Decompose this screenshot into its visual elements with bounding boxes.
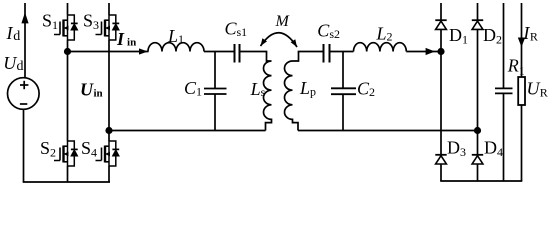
svg-text:D2: D2 — [483, 25, 502, 47]
svg-text:D1: D1 — [449, 25, 468, 47]
svg-text:C2: C2 — [357, 78, 375, 99]
svg-text:Cs1: Cs1 — [225, 19, 248, 40]
svg-text:Id: Id — [6, 23, 21, 44]
svg-text:S1: S1 — [42, 11, 58, 33]
svg-text:IR: IR — [522, 23, 538, 44]
svg-text:S2: S2 — [40, 138, 56, 160]
svg-text:Lp: Lp — [299, 78, 316, 99]
svg-text:C1: C1 — [184, 78, 202, 99]
svg-text:S4: S4 — [81, 138, 97, 160]
svg-text:D3: D3 — [447, 138, 466, 160]
svg-text:UR: UR — [527, 79, 548, 100]
svg-text:D4: D4 — [484, 138, 503, 160]
svg-text:L1: L1 — [167, 26, 184, 46]
svg-text:Cs2: Cs2 — [317, 21, 340, 42]
svg-text:Ud: Ud — [3, 53, 23, 74]
svg-text:L2: L2 — [376, 24, 393, 44]
svg-text:M: M — [275, 13, 291, 30]
svg-text:Iin: Iin — [116, 29, 136, 49]
svg-text:S3: S3 — [83, 11, 99, 33]
svg-text:Uin: Uin — [80, 79, 103, 99]
